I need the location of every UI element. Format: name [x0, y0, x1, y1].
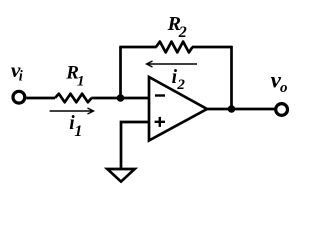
svg-text:2: 2 [178, 24, 187, 41]
wire R1 to op-amp inverting input [91, 97, 149, 100]
arrow i2 [147, 61, 198, 67]
wire non-inverting input [121, 122, 149, 169]
wire op-amp output [207, 108, 275, 111]
node: output junction [228, 105, 236, 113]
svg-text:2: 2 [176, 77, 185, 93]
op-amp plus sign [155, 117, 165, 127]
ground [107, 169, 134, 182]
svg-text:o: o [280, 80, 288, 96]
output terminal (vo) [276, 104, 288, 116]
svg-text:1: 1 [77, 73, 85, 89]
arrow i1 [50, 108, 94, 114]
wire feedback left vertical [119, 47, 122, 98]
wire input to R1 [26, 97, 55, 100]
svg-text:1: 1 [74, 123, 82, 140]
node: inverting input junction [117, 94, 125, 102]
op-amp minus sign [155, 94, 165, 96]
wire feedback top right segment [192, 46, 232, 49]
wire feedback top left segment [119, 46, 156, 49]
input terminal (vi) [13, 91, 25, 103]
svg-text:i: i [19, 69, 23, 85]
resistor R2 [156, 42, 193, 53]
resistor R1 [55, 94, 92, 103]
wire feedback right vertical [230, 46, 233, 109]
op-amp U1 [149, 77, 207, 141]
